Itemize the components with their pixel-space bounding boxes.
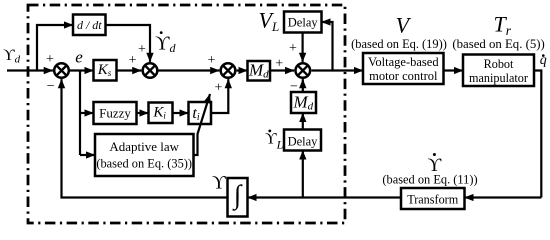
block Delay bottom xyxy=(284,130,321,151)
svg-text:Robot: Robot xyxy=(484,57,514,71)
svg-text:e: e xyxy=(75,47,83,66)
svg-text:Adaptive law: Adaptive law xyxy=(109,139,179,154)
svg-text:(based on Eq. (11)): (based on Eq. (11)) xyxy=(382,173,477,187)
svg-text:Md: Md xyxy=(293,93,314,113)
wire sum4 output to Voltage block xyxy=(311,69,363,71)
svg-text:Tr: Tr xyxy=(494,12,512,38)
wire Ks to sum2 xyxy=(117,69,142,71)
block Ks xyxy=(94,60,117,81)
wire input Yd to sum1 xyxy=(7,69,53,71)
block Fuzzy xyxy=(94,102,137,124)
svg-text:(based on Eq. (5)): (based on Eq. (5)) xyxy=(452,37,544,51)
svg-text:motor control: motor control xyxy=(369,69,438,83)
block Robot manipulator xyxy=(463,55,534,87)
dot of Ydot L xyxy=(268,130,271,133)
wire Fuzzy to Ki xyxy=(137,112,149,114)
wire DelayB up to Md2 xyxy=(302,113,304,130)
svg-text:Delay: Delay xyxy=(288,16,319,30)
svg-text:+: + xyxy=(129,53,137,68)
svg-text:+: + xyxy=(46,52,54,67)
wire integrator to sum1 xyxy=(62,79,228,197)
block Md1 xyxy=(248,61,271,81)
wire sum3 to Md xyxy=(237,69,248,71)
wire adaptive law diagonal to ti gain xyxy=(194,94,211,155)
wire branch up to d/dt xyxy=(37,25,73,71)
summing junction S3 xyxy=(221,63,236,78)
svg-text:Transform: Transform xyxy=(407,193,459,207)
block Voltage-based motor control xyxy=(363,53,444,84)
svg-text:∫: ∫ xyxy=(232,180,243,212)
wire Delay down to sum4 xyxy=(302,33,304,62)
block integrator xyxy=(228,178,248,217)
svg-text:ϒd: ϒd xyxy=(3,47,21,66)
wire VL feedback up to Delay xyxy=(322,22,333,71)
wire e to Adaptive law xyxy=(80,154,95,156)
svg-text:ϒL: ϒL xyxy=(265,130,284,151)
svg-text:V: V xyxy=(396,12,412,37)
summing junction S1 xyxy=(54,63,69,78)
dot of Ydot d xyxy=(160,31,163,34)
wire Robot out down xyxy=(534,71,541,198)
svg-text:(based on Eq. (35)): (based on Eq. (35)) xyxy=(96,157,192,171)
dot of Ydot xyxy=(433,153,436,156)
wire Ki to ti xyxy=(173,112,189,114)
wire sum2 to sum3 xyxy=(157,69,219,71)
wire Transform to integrator xyxy=(248,196,402,198)
dash-dot border xyxy=(28,5,345,223)
block ti adjustable gain xyxy=(189,102,212,124)
svg-text:Ki: Ki xyxy=(152,104,166,120)
block Md2 xyxy=(291,92,316,113)
block Adaptive law xyxy=(95,134,194,176)
wire d/dt to sum2 xyxy=(106,25,151,62)
wire ti to sum3 xyxy=(211,79,228,113)
svg-text:+: + xyxy=(275,57,283,72)
wire e branch down xyxy=(79,70,81,156)
svg-text:d / dt: d / dt xyxy=(77,18,102,32)
svg-text:−: − xyxy=(47,79,55,94)
summing junction S4 xyxy=(296,63,311,78)
svg-text:Fuzzy: Fuzzy xyxy=(99,106,131,121)
block Ki xyxy=(149,103,173,124)
svg-text:Ks: Ks xyxy=(97,62,112,78)
svg-text:ti: ti xyxy=(192,105,199,123)
svg-text:(based on Eq. (19)): (based on Eq. (19)) xyxy=(351,37,447,51)
block Delay top xyxy=(284,12,322,33)
wire bottom branch up to DelayB xyxy=(302,151,304,198)
wire Md to sum4 xyxy=(270,69,294,71)
svg-text:+: + xyxy=(289,41,297,56)
block Transform xyxy=(401,188,465,209)
svg-text:ϒd: ϒd xyxy=(155,33,176,56)
wire to Transform xyxy=(465,196,542,198)
summing junction S2 xyxy=(143,63,158,78)
wire Voltage to Robot xyxy=(444,69,464,71)
svg-text:manipulator: manipulator xyxy=(469,71,528,85)
svg-text:+: + xyxy=(208,53,216,68)
svg-text:ϒ: ϒ xyxy=(212,173,226,194)
wire sum1 to Ks xyxy=(69,69,94,71)
svg-text:+: + xyxy=(138,42,146,57)
svg-text:Delay: Delay xyxy=(288,135,319,149)
svg-text:Voltage-based: Voltage-based xyxy=(368,55,439,69)
block d/dt xyxy=(73,15,106,36)
svg-text:Md: Md xyxy=(248,61,269,81)
wire e to Fuzzy xyxy=(80,112,94,114)
dot of qdot xyxy=(542,54,545,57)
svg-text:VL: VL xyxy=(259,8,280,34)
wire Md2 up to sum4 xyxy=(302,79,304,92)
svg-text:+: + xyxy=(215,81,223,96)
